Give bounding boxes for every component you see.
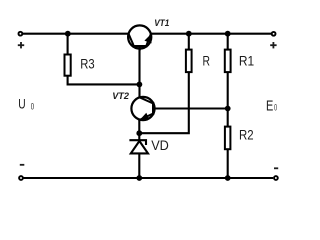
svg-text:R1: R1 [239,53,254,69]
svg-text:0: 0 [274,103,277,113]
svg-text:VD: VD [151,137,169,153]
svg-text:0: 0 [31,102,34,112]
svg-text:R: R [203,53,211,69]
svg-text:R2: R2 [239,127,254,143]
svg-text:VT2: VT2 [112,91,129,102]
svg-text:VT1: VT1 [154,18,169,29]
svg-text:U: U [18,95,25,111]
svg-text:R3: R3 [80,56,95,72]
svg-text:E: E [266,98,274,114]
